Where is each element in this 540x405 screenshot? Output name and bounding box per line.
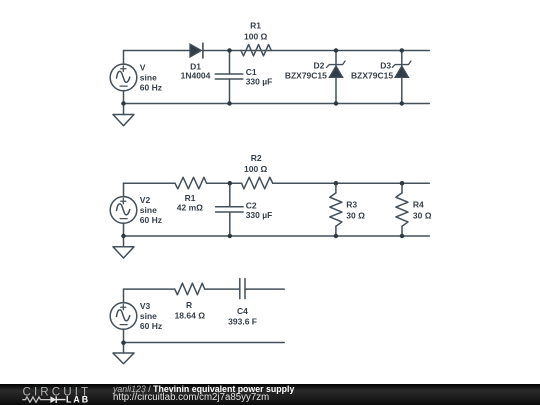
wire: V2 bottom stub bbox=[123, 223, 125, 236]
CircuitLab logo bbox=[0, 384, 110, 405]
svg-text:18.64 Ω: 18.64 Ω bbox=[175, 310, 206, 320]
capacitor C2 bbox=[216, 183, 244, 236]
resistor R (18.64 Ohm) bbox=[175, 283, 205, 295]
node: R4 bottom bbox=[400, 234, 405, 239]
resistor R3 (vertical) bbox=[330, 183, 342, 236]
node: D2 bottom bbox=[334, 101, 339, 106]
svg-text:C2: C2 bbox=[246, 200, 257, 210]
node: C1 bottom bbox=[227, 101, 232, 106]
svg-text:60 Hz: 60 Hz bbox=[140, 83, 162, 93]
resistor R1 (42 mOhm) bbox=[175, 177, 207, 189]
node: D3 top bbox=[400, 48, 405, 53]
footer caption line 1 bbox=[113, 385, 294, 394]
node: C2 top bbox=[228, 181, 233, 186]
node: R3 bottom bbox=[334, 234, 339, 239]
svg-text:R2: R2 bbox=[251, 153, 262, 163]
svg-text:D3: D3 bbox=[380, 60, 391, 70]
node: V bottom junction bbox=[121, 101, 126, 106]
svg-text:BZX79C15: BZX79C15 bbox=[285, 71, 327, 81]
voltage source V2 bbox=[110, 197, 137, 224]
node: R4 top bbox=[400, 181, 405, 186]
wire: V3 bottom stub bbox=[123, 329, 125, 343]
node: D2 top bbox=[334, 48, 339, 53]
svg-text:330 µF: 330 µF bbox=[246, 76, 273, 86]
wire: mid bottom rail bbox=[124, 235, 430, 237]
resistor R4 (vertical) bbox=[396, 183, 408, 236]
svg-text:330 µF: 330 µF bbox=[246, 210, 273, 220]
wire: top circuit, top rail D1 cathode to right end bbox=[203, 49, 429, 51]
svg-text:1N4004: 1N4004 bbox=[181, 71, 211, 81]
svg-text:393.6 F: 393.6 F bbox=[228, 317, 257, 327]
svg-text:R: R bbox=[186, 300, 192, 310]
svg-text:R3: R3 bbox=[346, 199, 357, 209]
svg-text:V3: V3 bbox=[140, 301, 151, 311]
ground (bottom circuit) bbox=[113, 342, 134, 363]
svg-text:BZX79C15: BZX79C15 bbox=[351, 71, 393, 81]
voltage source V bbox=[110, 64, 137, 91]
voltage source V3 bbox=[110, 303, 137, 330]
svg-text:60 Hz: 60 Hz bbox=[140, 215, 162, 225]
svg-text:LAB: LAB bbox=[66, 395, 90, 405]
node: V2 bottom junction bbox=[121, 234, 126, 239]
wire: top circuit, top rail left segment (V top to D1 anode) bbox=[124, 49, 190, 51]
ground (top circuit) bbox=[113, 103, 134, 125]
svg-text:C1: C1 bbox=[246, 67, 257, 77]
footer bar bbox=[0, 384, 540, 405]
zener diode D3 bbox=[392, 50, 411, 103]
svg-text:100 Ω: 100 Ω bbox=[244, 164, 268, 174]
wire: R to C4 bbox=[205, 288, 240, 290]
svg-text:C4: C4 bbox=[237, 306, 248, 316]
zener diode D2 bbox=[327, 50, 346, 103]
capacitor C1 bbox=[215, 50, 243, 103]
wire: top circuit, bottom rail bbox=[124, 102, 430, 104]
node: D3 bottom bbox=[400, 101, 405, 106]
capacitor C4 (horizontal, vertical plates) bbox=[240, 279, 245, 299]
footer caption line 2 bbox=[113, 393, 269, 403]
node: V3 bottom junction bbox=[121, 341, 126, 346]
svg-text:D2: D2 bbox=[314, 60, 325, 70]
svg-text:30 Ω: 30 Ω bbox=[346, 211, 365, 221]
resistor R2 bbox=[242, 177, 273, 189]
wire: bottom circuit bottom rail bbox=[124, 341, 285, 343]
logo diode bbox=[50, 396, 56, 403]
svg-text:sine: sine bbox=[140, 205, 157, 215]
node: C1 top bbox=[227, 48, 232, 53]
wire: V3 top stub bbox=[123, 289, 125, 303]
svg-text:sine: sine bbox=[140, 72, 157, 82]
wire: bottom circuit top rail left (V3 to R) bbox=[124, 288, 175, 290]
svg-text:R4: R4 bbox=[413, 199, 424, 209]
logo resistor squiggle bbox=[22, 397, 50, 402]
wire: mid top rail left (V2 to R1) bbox=[124, 182, 176, 184]
node: C2 bottom bbox=[228, 234, 233, 239]
svg-text:60 Hz: 60 Hz bbox=[140, 321, 162, 331]
svg-text:sine: sine bbox=[140, 311, 157, 321]
wire: V2 top stub bbox=[123, 183, 125, 197]
svg-text:R1: R1 bbox=[250, 21, 261, 31]
wire: mid top rail R2 to right end bbox=[273, 182, 430, 184]
ground (middle circuit) bbox=[113, 236, 134, 258]
wire: V bottom stub bbox=[123, 90, 125, 103]
wire: C4 to right end bbox=[245, 288, 284, 290]
svg-text:V: V bbox=[140, 63, 146, 73]
svg-text:42 mΩ: 42 mΩ bbox=[177, 202, 203, 212]
wire: V top stub bbox=[123, 50, 125, 64]
svg-text:30 Ω: 30 Ω bbox=[413, 211, 432, 221]
svg-text:V2: V2 bbox=[140, 195, 151, 205]
wire: mid top rail R1 to C2 node bbox=[207, 182, 242, 184]
diode D1 bbox=[190, 43, 203, 58]
node: R3 top bbox=[334, 181, 339, 186]
svg-text:100 Ω: 100 Ω bbox=[244, 31, 268, 41]
resistor R1 (top) bbox=[241, 45, 271, 56]
